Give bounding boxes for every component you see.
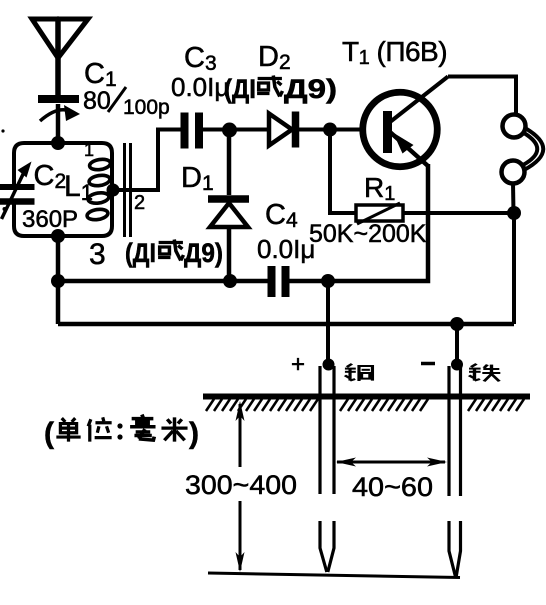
svg-text:1: 1 [84,140,94,160]
node A [222,123,237,138]
iron electrode [449,359,463,577]
node tap2 [107,184,120,197]
capacitor C4 [272,266,286,297]
wire2 [58,322,514,327]
svg-text:100p: 100p [123,96,170,119]
wire emitter top [448,77,516,115]
label minus [421,362,435,366]
label unit mm [44,415,199,450]
dim arrow horizontal [336,458,447,467]
svg-text:0.0Iμ: 0.0Iμ [171,72,229,102]
svg-text:3: 3 [89,238,106,271]
svg-text:(ДI: (ДI [224,74,256,104]
label (D1 or D9) top [224,74,337,104]
speck [3,207,7,211]
svg-text:C4: C4 [265,199,298,232]
svg-text:D2: D2 [258,41,291,74]
speck [1,129,4,132]
transistor T1 [363,77,448,167]
headphone top [503,115,526,138]
inductor L1 [86,158,111,221]
bottom reference line [208,573,460,578]
ground surface [203,394,530,400]
svg-text:+: + [291,351,305,378]
node wire1 left [51,274,65,288]
headphone bottom [502,161,525,184]
node tank bottom [51,229,65,243]
antenna [32,19,88,96]
svg-text:50K~200K: 50K~200K [309,220,427,248]
diode D1 [208,130,249,281]
wire left vertical [56,236,61,324]
wire tap2 to C3 [113,130,181,191]
resistor R1 [356,203,403,224]
svg-text:R1: R1 [364,172,395,205]
wire node D down [512,213,516,324]
wire C3 to D2 [203,128,269,132]
svg-text:C2: C2 [34,160,67,193]
wire iron drop [455,324,459,364]
svg-text:300~400: 300~400 [185,470,297,500]
wire collector [289,164,428,281]
node copper junction [321,274,335,288]
svg-text:80: 80 [83,87,111,115]
core lines [125,143,131,237]
copper electrode [320,359,335,573]
svg-text:(: ( [44,417,54,450]
svg-text:T1 (П6В): T1 (П6В) [342,36,447,69]
node C base [323,123,337,137]
node D1 bottom [223,274,237,288]
label iron [469,364,500,382]
label 80/100p [83,87,170,119]
svg-text:Д9): Д9) [184,238,223,268]
dim arrow vertical [236,401,245,572]
svg-text:360P: 360P [22,206,78,233]
svg-text:0.0Iμ: 0.0Iμ [257,234,315,264]
svg-text:40~60: 40~60 [352,472,433,502]
tank loop wire [14,143,112,236]
label copper [345,364,373,381]
node D [507,206,521,220]
node top of tank [51,136,65,150]
wire1 left segment [58,279,268,284]
capacitor C1 [38,99,80,143]
diode D2 [269,112,330,148]
svg-text:(ДI: (ДI [125,238,156,268]
capacitor C3 [185,113,200,149]
svg-text:Д9): Д9) [284,74,337,104]
wire base [330,128,362,132]
svg-text:D1: D1 [181,162,214,195]
wire copper drop [326,281,330,364]
wire phones to node D [511,183,516,213]
svg-text:2: 2 [134,192,145,214]
hatching [206,399,524,411]
svg-text:): ) [189,417,199,450]
capacitor C2 [0,162,35,220]
wire base to R1 [330,130,356,214]
label (D1 or D9) bottom [125,238,223,268]
node iron junction [450,317,464,331]
svg-text:C3: C3 [184,42,217,75]
wire R1 to node D [403,211,514,215]
headphone band [523,128,543,170]
